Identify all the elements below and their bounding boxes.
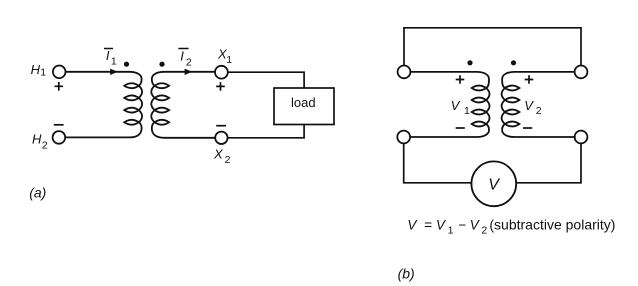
svg-text:X: X — [213, 147, 224, 162]
svg-text:2: 2 — [42, 140, 48, 152]
arrow I2 — [185, 69, 193, 75]
svg-text:1: 1 — [111, 55, 117, 67]
polarity dot primary — [124, 62, 129, 67]
svg-text:(a): (a) — [29, 185, 46, 201]
plus sign V1 — [456, 75, 465, 84]
svg-text:2: 2 — [186, 56, 192, 68]
terminal lower-right b — [575, 131, 588, 144]
terminal lower-left b — [397, 131, 410, 144]
minus sign V2 — [523, 127, 532, 129]
wire lower-left terminal down to voltmeter — [404, 144, 472, 183]
top rail of b circuit — [404, 28, 581, 66]
winding V2 with wires to right terminals — [502, 72, 575, 137]
load box — [274, 88, 334, 125]
svg-text:H: H — [32, 132, 42, 147]
plus sign at X1 — [216, 82, 225, 91]
svg-text:1: 1 — [448, 225, 454, 237]
terminal X2 — [215, 132, 227, 144]
arrow I1 — [110, 69, 118, 75]
winding V1 with wires to left terminals — [410, 72, 490, 137]
wire X1 to load — [228, 72, 304, 88]
wire voltmeter to lower-right terminal — [516, 144, 581, 183]
polarity dot secondary — [159, 62, 164, 67]
svg-text:load: load — [291, 95, 316, 110]
terminal X1 — [215, 66, 228, 79]
wire load to X2 — [228, 125, 304, 138]
wire H1 to primary winding and primary winding P1 and wire to H2 — [65, 72, 142, 138]
plus sign at H1 — [55, 82, 64, 91]
terminal upper-left b — [398, 66, 411, 79]
minus sign V1 — [456, 127, 465, 129]
svg-text:H: H — [31, 62, 41, 77]
terminal H2 — [53, 131, 66, 144]
minus sign at H2 — [54, 124, 64, 126]
svg-text:V: V — [451, 98, 461, 113]
svg-text:−: − — [458, 217, 466, 232]
svg-text:1: 1 — [40, 67, 46, 79]
svg-text:2: 2 — [536, 105, 542, 117]
svg-text:I: I — [106, 48, 110, 63]
svg-text:(subtractive polarity): (subtractive polarity) — [489, 216, 615, 232]
svg-text:(b): (b) — [398, 266, 415, 282]
terminal H1 — [53, 66, 66, 79]
svg-text:V: V — [488, 177, 500, 194]
svg-text:2: 2 — [225, 154, 231, 166]
svg-text:V: V — [524, 98, 534, 113]
svg-text:=: = — [424, 217, 432, 232]
svg-text:1: 1 — [226, 54, 232, 66]
svg-text:I: I — [180, 48, 184, 63]
minus sign at X2 — [216, 125, 226, 127]
plus sign V2 — [525, 75, 534, 84]
svg-text:2: 2 — [481, 225, 487, 237]
polarity dot V1 — [467, 60, 472, 65]
svg-text:1: 1 — [464, 105, 470, 117]
voltmeter V — [471, 161, 516, 206]
terminal upper-right b — [575, 66, 588, 79]
polarity dot V2 — [511, 60, 516, 65]
secondary winding S1 and wires to X1 X2 — [151, 72, 215, 138]
